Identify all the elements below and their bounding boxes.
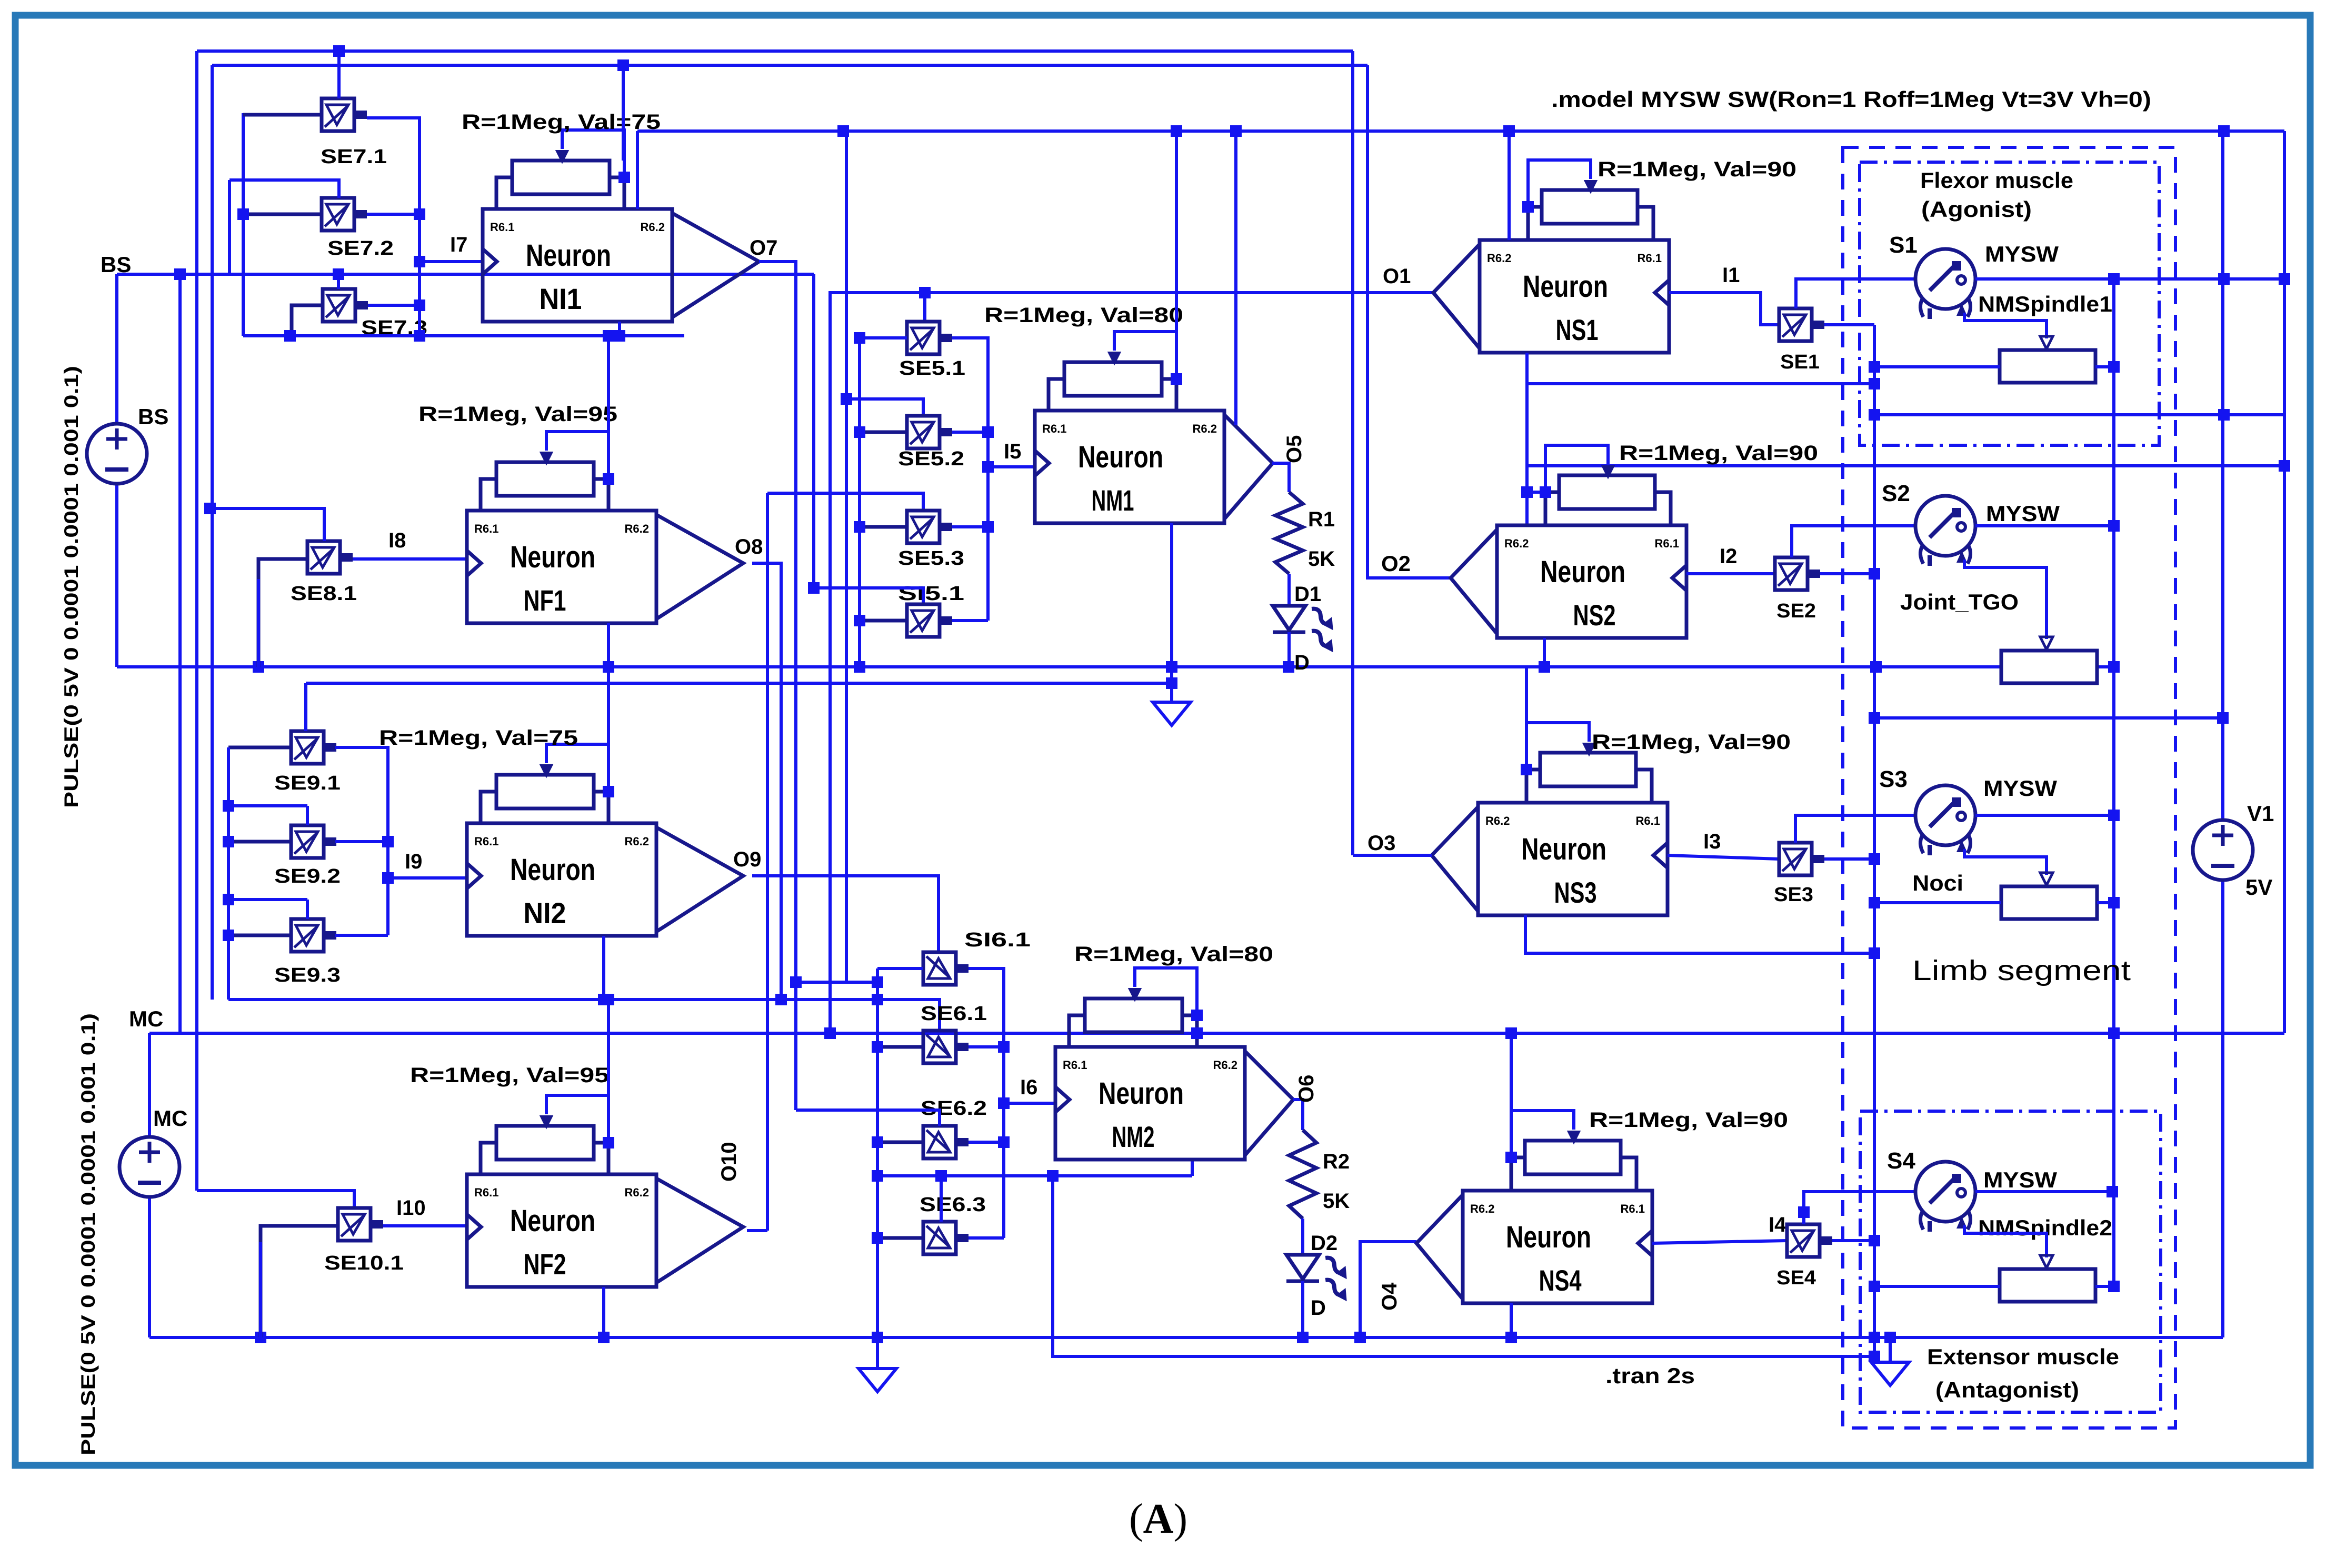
wire S4 to muscle2 — [1964, 1225, 2047, 1257]
svg-text:I3: I3 — [1703, 830, 1721, 853]
wire O7 net — [759, 262, 796, 1110]
svg-text:MYSW: MYSW — [1983, 776, 2057, 801]
wire SE6.3 output — [969, 1236, 1004, 1240]
svg-text:MYSW: MYSW — [1985, 242, 2059, 266]
wire S1 bus — [1975, 277, 2284, 281]
variable resistor of NI1 — [496, 130, 630, 209]
label I2 — [1720, 545, 1737, 568]
wire SE8.1 loop blue — [257, 579, 260, 667]
synapse SE6.1 — [923, 1031, 969, 1063]
junction ground 3 — [1884, 1332, 1896, 1343]
wire SE2 to S2 — [1792, 526, 1915, 557]
junction SE6.2 left — [872, 1136, 883, 1148]
label I4 — [1769, 1213, 1786, 1236]
svg-text:D: D — [1311, 1296, 1326, 1320]
wire I3 — [1668, 855, 1779, 859]
junction muscle1 right — [2108, 361, 2120, 373]
resistor R2 — [1289, 1130, 1316, 1219]
svg-text:V1: V1 — [2247, 801, 2274, 826]
label I8 — [388, 529, 406, 552]
switch S1 — [1915, 249, 1975, 319]
junction SE6.3 left — [872, 1232, 883, 1244]
wire NF2 feed — [607, 1000, 610, 1143]
wire NI1 bottom net — [243, 334, 684, 337]
label O6 — [1295, 1075, 1318, 1103]
wire O8 net — [752, 563, 781, 1000]
wire SE10.1 loop blue — [259, 1242, 262, 1337]
svg-text:R=1Meg, Val=80: R=1Meg, Val=80 — [984, 304, 1183, 327]
label R NS4 — [1589, 1108, 1788, 1132]
label BS source — [138, 404, 168, 429]
svg-text:5V: 5V — [2245, 875, 2272, 900]
label I3 — [1703, 830, 1721, 853]
label SE6.3 — [920, 1194, 986, 1216]
junction NS2 feed — [1521, 486, 1533, 498]
label SI6.1 — [964, 929, 1031, 951]
svg-text:I2: I2 — [1720, 545, 1737, 568]
wire SE9 left rail — [227, 747, 230, 1000]
junction NM2 bottom wire — [1047, 1170, 1059, 1182]
label 5V — [2245, 875, 2272, 900]
svg-text:O1: O1 — [1383, 265, 1411, 288]
wire NI1 feed 2 — [636, 131, 639, 209]
wire SE9.2 output — [335, 840, 388, 843]
svg-text:I10: I10 — [396, 1196, 426, 1220]
synapse SE5.3 — [907, 511, 952, 543]
label I1 — [1722, 264, 1740, 287]
junction I6 tap — [998, 1097, 1010, 1109]
label R NS2 — [1619, 442, 1818, 465]
label SE5.2 — [898, 448, 964, 470]
arrow into muscle2 — [2040, 1255, 2053, 1268]
svg-text:5K: 5K — [1323, 1190, 1350, 1213]
svg-text:Neuron: Neuron — [1523, 269, 1608, 304]
wire SE9.3 left lead — [228, 934, 291, 937]
junction SE10 loop — [255, 1332, 266, 1343]
label R NS3 — [1592, 731, 1791, 754]
synapse SE7.2 — [322, 198, 367, 231]
wire NM1 bottom pin — [1170, 523, 1173, 702]
label NMSpindle2 — [1978, 1215, 2112, 1240]
svg-text:SE10.1: SE10.1 — [324, 1252, 404, 1274]
svg-text:NM1: NM1 — [1092, 484, 1134, 517]
label O9 — [733, 848, 761, 871]
label O3 — [1367, 832, 1395, 855]
wire S2 bus — [1975, 524, 2114, 527]
svg-text:R6.2: R6.2 — [1485, 814, 1510, 827]
wire SE1 to S1 — [1796, 279, 1916, 308]
junction SE7 rail bottom — [414, 330, 425, 342]
label O8 — [735, 535, 763, 558]
synapse SE9.3 — [291, 919, 336, 952]
label R NM1 — [984, 304, 1183, 327]
label SE6.1 — [921, 1003, 987, 1025]
wire SE2 out — [1820, 572, 1874, 575]
junction V1 column top — [2218, 125, 2230, 137]
label caption A — [1129, 1496, 1187, 1542]
label MC net — [129, 1006, 163, 1031]
junction SE8.1 feed — [204, 503, 216, 514]
svg-text:R=1Meg, Val=75: R=1Meg, Val=75 — [462, 111, 661, 134]
junction NF2 bottom — [598, 1332, 610, 1343]
wire left rail B — [211, 65, 214, 1000]
svg-text:BS: BS — [138, 404, 168, 429]
wire SE9.1 top lead — [304, 683, 307, 731]
label SE9.1 — [274, 772, 341, 794]
wire SE5.3 output — [952, 525, 988, 528]
label O2 — [1381, 551, 1411, 576]
wire O4 net — [1360, 1242, 1416, 1337]
voltage source V1 — [2193, 820, 2253, 880]
svg-text:R=1Meg, Val=90: R=1Meg, Val=90 — [1598, 158, 1796, 181]
svg-text:MYSW: MYSW — [1986, 501, 2060, 526]
junction NI2 pin x net — [598, 994, 610, 1005]
wire NF1 feed — [607, 336, 610, 479]
variable resistor of NS1 — [1522, 160, 1653, 240]
svg-text:R6.1: R6.1 — [474, 522, 498, 535]
label R NI2 — [379, 726, 578, 750]
junction SE6 rail x O7 — [872, 976, 883, 988]
junction SE6 rail x net — [872, 994, 883, 1005]
junction SE5.3 left — [854, 521, 865, 533]
junction S1 right — [2279, 273, 2290, 285]
svg-text:(Antagonist): (Antagonist) — [1935, 1377, 2079, 1402]
svg-text:NI2: NI2 — [524, 896, 566, 930]
junction O1 drop — [824, 1027, 836, 1039]
junction NS1 feed — [1503, 125, 1515, 137]
wire NF2 bottom pin — [602, 1287, 605, 1337]
wire I10 — [383, 1224, 467, 1227]
svg-text:Neuron: Neuron — [1078, 440, 1163, 474]
svg-text:R6.2: R6.2 — [1193, 422, 1217, 435]
wire NS1 bottom pin — [1525, 353, 1529, 525]
svg-text:.tran 2s: .tran 2s — [1605, 1363, 1695, 1388]
wire NM2 bottom pin — [1191, 1160, 1194, 1176]
label D1 — [1294, 583, 1321, 606]
wire SE7.3 top lead — [337, 274, 340, 289]
svg-text:R=1Meg, Val=95: R=1Meg, Val=95 — [410, 1064, 609, 1087]
wire I4 — [1652, 1241, 1787, 1243]
svg-text:R=1Meg, Val=80: R=1Meg, Val=80 — [1074, 943, 1273, 966]
junction SE5.1 left — [854, 332, 865, 344]
svg-text:O2: O2 — [1381, 551, 1411, 576]
switch S3 — [1915, 785, 1975, 855]
svg-text:SE4: SE4 — [1776, 1267, 1816, 1289]
label SE10.1 — [324, 1252, 404, 1274]
wire muscle1 left lead — [1874, 365, 2000, 368]
junction NI1 bottom pin — [614, 330, 625, 342]
junction NM2 feed — [1191, 1027, 1203, 1039]
junction S1 x V1 rail — [2218, 273, 2230, 285]
junction SE4 out x rail — [1869, 1235, 1880, 1246]
wire SE10.1 left lead — [261, 1226, 338, 1337]
wire I8 — [353, 557, 467, 561]
junction S1 x muscle rail — [2108, 273, 2120, 285]
junction SE8 loop — [253, 661, 264, 673]
wire SE7.1 top lead — [337, 51, 341, 98]
svg-text:SI6.1: SI6.1 — [964, 929, 1031, 951]
ground NM1 — [1153, 702, 1191, 725]
dash-dot box Flexor muscle — [1860, 162, 2159, 445]
svg-text:O3: O3 — [1367, 832, 1395, 855]
wire SE6 output rail — [969, 968, 1004, 1238]
svg-text:O8: O8 — [735, 535, 763, 558]
wire SE6.3 left lead — [877, 1236, 923, 1240]
svg-text:BS: BS — [101, 252, 131, 277]
svg-text:NS1: NS1 — [1556, 313, 1599, 346]
svg-text:SE5.1: SE5.1 — [899, 357, 965, 379]
svg-text:S1: S1 — [1889, 232, 1918, 258]
label R NF2 — [410, 1064, 609, 1087]
label D2 — [1311, 1232, 1337, 1255]
resistor R1 — [1275, 492, 1303, 574]
svg-text:R6.1: R6.1 — [474, 1186, 498, 1199]
svg-text:I7: I7 — [450, 233, 467, 256]
svg-text:R6.1: R6.1 — [1621, 1202, 1645, 1215]
wire SE6 left rail — [876, 968, 879, 1337]
svg-text:5K: 5K — [1308, 547, 1335, 571]
wire O7 to SE6 rail — [796, 981, 877, 984]
label D1 D — [1294, 651, 1310, 674]
label SE7.2 — [327, 237, 394, 259]
label MC source — [153, 1106, 187, 1131]
svg-text:O10: O10 — [717, 1142, 741, 1182]
junction NF1 bottom — [603, 661, 614, 673]
wire NI2 bottom net to SE6.1 — [228, 1000, 940, 1031]
dashed box Limb segment — [1843, 147, 2175, 1428]
neuron NI1 — [483, 209, 759, 322]
svg-text:NF1: NF1 — [524, 584, 566, 617]
wire O3 link — [1353, 854, 1432, 857]
junction NS4 bottom — [1505, 1332, 1517, 1343]
svg-text:R6.1: R6.1 — [1638, 252, 1662, 265]
svg-text:Neuron: Neuron — [1506, 1220, 1591, 1254]
wire TGO net — [1874, 716, 2223, 720]
voltage source MC — [119, 1137, 179, 1197]
wire S1 to muscle1 — [1964, 313, 2047, 338]
synapse SE4 — [1787, 1224, 1832, 1257]
wire Noci left lead — [1874, 901, 2001, 904]
junction SE5.3 out — [982, 521, 994, 533]
junction I5 tap — [982, 461, 994, 473]
label I5 — [1004, 440, 1021, 463]
svg-text:Flexor muscle: Flexor muscle — [1920, 168, 2073, 193]
label SE7.1 — [321, 146, 387, 168]
wire O1 tip stub — [1432, 291, 1435, 294]
wire SE10.1 top lead — [197, 1191, 354, 1208]
svg-text:SE8.1: SE8.1 — [291, 583, 357, 605]
wire SE9.1 left lead — [228, 746, 291, 750]
label R1 — [1308, 508, 1335, 531]
junction BS column — [174, 268, 186, 280]
wire SE6.2 output — [969, 1141, 1004, 1144]
wire top bus 1 — [197, 49, 1353, 53]
wire SE5.2 top net — [846, 131, 923, 416]
svg-text:R6.1: R6.1 — [1063, 1058, 1087, 1072]
junction SE5.2 feed tap — [841, 393, 852, 405]
svg-text:R6.1: R6.1 — [490, 221, 514, 234]
junction muscle1 left — [1869, 361, 1880, 373]
junction TGO net left — [1869, 712, 1880, 724]
wire O10 net — [747, 1229, 767, 1232]
svg-text:R=1Meg, Val=90: R=1Meg, Val=90 — [1619, 442, 1818, 465]
svg-text:Neuron: Neuron — [510, 540, 595, 574]
wire flexor net — [1874, 413, 2284, 416]
wire SE9.3 top lead — [306, 900, 309, 919]
muscle resistor NMSpindle1 — [2000, 350, 2095, 383]
voltage source BS — [87, 424, 147, 484]
label SE1 — [1780, 351, 1820, 373]
svg-text:R6.1: R6.1 — [1636, 814, 1660, 827]
junction SE5 rail bottom — [854, 661, 865, 673]
synapse SE1 — [1779, 308, 1824, 341]
junction NF2 feed top — [603, 994, 614, 1005]
svg-text:SE5.2: SE5.2 — [898, 448, 964, 470]
svg-text:SE2: SE2 — [1776, 600, 1816, 622]
label D2 D — [1311, 1296, 1326, 1320]
label Limb segment — [1912, 955, 2131, 986]
junction SE5.2 feed — [837, 125, 849, 137]
label I10 — [396, 1196, 426, 1220]
synapse SI6.1 — [923, 952, 969, 985]
label MYSW S3 — [1983, 776, 2057, 801]
junction SE5.2 left — [854, 426, 865, 438]
wire SE5.3 left lead — [860, 525, 907, 529]
svg-text:R6.2: R6.2 — [625, 522, 649, 535]
wire NI1 bottom pin — [618, 322, 621, 336]
junction Noci left — [1869, 897, 1880, 908]
label I9 — [405, 850, 422, 873]
ground extensor — [1871, 1362, 1909, 1385]
svg-text:R6.1: R6.1 — [1655, 537, 1679, 550]
svg-text:Joint_TGO: Joint_TGO — [1900, 590, 2019, 614]
junction SI5.1 left — [854, 615, 865, 626]
svg-text:R6.2: R6.2 — [625, 835, 649, 848]
synapse SE9.2 — [291, 825, 336, 858]
wire bottom bus — [149, 1336, 2223, 1339]
svg-text:R6.2: R6.2 — [641, 221, 665, 234]
svg-text:R6.2: R6.2 — [1470, 1202, 1494, 1215]
wire net D row 2 — [306, 682, 1172, 685]
label 5K R1 — [1308, 547, 1335, 571]
wire SE5 output rail — [952, 338, 988, 621]
junction muscle2 right — [2108, 1281, 2120, 1292]
label Extensor muscle — [1927, 1344, 2119, 1369]
wire muscle rail A — [1873, 325, 1876, 1356]
wire SE3 to S3 — [1795, 815, 1915, 843]
wire NS2 feed link — [1527, 491, 1545, 494]
dash-dot box Extensor muscle — [1860, 1111, 2161, 1412]
wire top bus 3 — [637, 129, 2284, 133]
label tran directive — [1605, 1363, 1695, 1388]
synapse SE7.3 — [323, 289, 368, 322]
wire O1 net — [830, 293, 1433, 1033]
wire SE9.2 left lead — [228, 840, 291, 844]
wire top bus 2 — [212, 64, 1367, 67]
svg-text:Limb segment: Limb segment — [1912, 955, 2131, 986]
synapse SE10.1 — [338, 1208, 383, 1241]
wire SE5.2 left lead — [860, 431, 907, 434]
wire S2 to TGO — [1964, 560, 2047, 639]
wire left rail C — [178, 274, 182, 1033]
wire left rail A — [195, 51, 198, 1191]
junction SE5.2 out — [982, 426, 994, 438]
svg-text:Extensor muscle: Extensor muscle — [1927, 1344, 2119, 1369]
junction NS3 net x rail — [1869, 947, 1880, 959]
junction NM1 feed — [1171, 125, 1182, 137]
svg-text:MYSW: MYSW — [1983, 1167, 2057, 1192]
svg-text:O7: O7 — [750, 236, 777, 259]
wire O10 rail — [766, 493, 769, 1231]
svg-text:NI1: NI1 — [540, 282, 582, 315]
arrow into muscle1 — [2040, 336, 2053, 349]
svg-text:R=1Meg, Val=95: R=1Meg, Val=95 — [418, 403, 617, 426]
wire muscle2 right lead — [2095, 1285, 2114, 1288]
wire Noci right lead — [2097, 901, 2114, 904]
svg-text:PULSE(0 5V 0 0.0001 0.0001 0.0: PULSE(0 5V 0 0.0001 0.0001 0.001 0.1) — [61, 366, 82, 808]
svg-text:Noci: Noci — [1912, 871, 1963, 895]
junction SE7.3 top — [333, 268, 344, 280]
junction S2 x muscle rail — [2108, 520, 2120, 532]
junction flexor net left — [1869, 409, 1880, 421]
svg-text:MC: MC — [153, 1106, 187, 1131]
svg-text:SE6.1: SE6.1 — [921, 1003, 987, 1025]
svg-text:R6.1: R6.1 — [474, 835, 498, 848]
svg-text:R=1Meg, Val=90: R=1Meg, Val=90 — [1592, 731, 1791, 754]
LED D2 — [1286, 1254, 1351, 1301]
wire SE7 left rail — [242, 113, 245, 336]
neuron NF1 — [467, 511, 743, 623]
junction SE7.3 left — [284, 330, 296, 342]
wire SE7.3 output — [368, 304, 420, 307]
wire SE9.3 output — [335, 934, 388, 937]
junction SE3 out x rail — [1869, 853, 1880, 865]
junction D1 cathode — [1283, 661, 1294, 673]
wire SE6.1 output — [969, 1045, 1004, 1048]
junction TGO net x V1 — [2217, 712, 2229, 724]
wire SE9.2 top lead — [306, 806, 309, 825]
svg-text:SE3: SE3 — [1774, 884, 1813, 906]
junction flexor net x V1 — [2218, 409, 2230, 421]
label PULSE BS — [61, 366, 82, 808]
label O5 — [1283, 435, 1306, 463]
label SE6.2 — [921, 1097, 987, 1120]
wire muscle2 left lead — [1874, 1285, 2000, 1288]
junction S3 x muscle rail — [2108, 810, 2120, 821]
junction muscle2 left — [1869, 1281, 1880, 1292]
label V1 — [2247, 801, 2274, 826]
svg-text:O4: O4 — [1378, 1282, 1401, 1311]
neuron NM1 — [1035, 411, 1273, 523]
svg-text:I9: I9 — [405, 850, 422, 873]
label O7 — [750, 236, 777, 259]
label Flexor muscle — [1920, 168, 2073, 193]
label MYSW S4 — [1983, 1167, 2057, 1192]
wire SE5.3 top net — [767, 493, 923, 511]
svg-text:I8: I8 — [388, 529, 406, 552]
arrow into TGO — [2040, 637, 2053, 650]
wire D1 to net — [1287, 632, 1291, 667]
svg-text:.model MYSW SW(Ron=1 Roff=1Meg: .model MYSW SW(Ron=1 Roff=1Meg Vt=3V Vh=… — [1551, 87, 2151, 112]
label Noci — [1912, 871, 1963, 895]
junction SE7.2 out — [414, 208, 425, 220]
wire NM2 bottom net — [877, 1174, 1192, 1177]
junction SE9.3 feed — [223, 894, 234, 905]
neuron NS3 — [1432, 803, 1668, 915]
label SE9.3 — [274, 964, 341, 986]
svg-text:NF2: NF2 — [524, 1247, 566, 1281]
label SE5.3 — [898, 547, 964, 570]
